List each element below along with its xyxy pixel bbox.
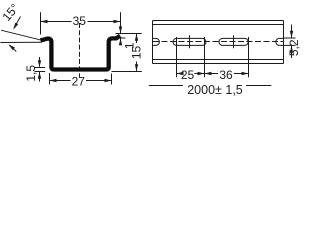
1 dim ticks / 15 dim top extension — [116, 33, 142, 35]
35 dim extension line left — [40, 12, 42, 34]
15deg leader arrows — [12, 23, 18, 31]
5,2 dim ticks — [284, 37, 296, 39]
svg-text:2000± 1,5: 2000± 1,5 — [187, 83, 243, 97]
svg-text:25: 25 — [181, 68, 195, 82]
1,5 dim ticks — [35, 67, 46, 69]
15deg leader upper — [14, 17, 21, 29]
36 dim arrows — [205, 72, 212, 75]
svg-text:15: 15 — [130, 46, 144, 60]
slot 1 — [173, 38, 206, 45]
hat profile (DIN rail cross-section) — [41, 36, 121, 70]
svg-text:35: 35 — [73, 14, 87, 28]
15deg reference line horizontal — [1, 41, 42, 43]
15 dim bottom extension — [112, 71, 142, 73]
15 dim line — [136, 34, 138, 44]
rail fold line top — [153, 24, 284, 26]
15 dim arrows — [135, 34, 138, 41]
15deg leader lower — [9, 45, 16, 51]
slot 2 — [219, 38, 248, 45]
rail fold line bottom — [153, 59, 284, 61]
2000 dim line — [149, 85, 183, 87]
rail centerline dashed — [153, 41, 283, 43]
5,2 dim arrow stems — [291, 25, 293, 38]
25 dim line — [177, 73, 181, 75]
1,5 dim arrow stems — [39, 57, 41, 67]
rail front view top edge — [153, 20, 284, 22]
rail left end — [152, 21, 154, 64]
35 dim line — [41, 21, 72, 23]
half slot at right end — [276, 38, 284, 45]
centerline of cross-section (dashed) — [79, 23, 81, 77]
27 dim arrows — [50, 79, 57, 82]
svg-text:1,5: 1,5 — [24, 65, 38, 82]
half slot at left end — [153, 38, 160, 45]
27 dim extension lines — [49, 73, 51, 85]
svg-text:27: 27 — [72, 75, 86, 89]
27 dim line — [50, 80, 71, 82]
1 dim arrows — [119, 26, 122, 33]
1,5 dim arrows — [38, 60, 41, 67]
25 dim arrows — [177, 72, 184, 75]
rail bottom edge — [153, 63, 284, 65]
rail right end — [283, 21, 285, 64]
slot 2 center tick — [233, 35, 235, 48]
svg-text:36: 36 — [219, 68, 233, 82]
1 dim arrow stems — [120, 27, 122, 34]
35 dim arrows — [41, 20, 48, 23]
35 dim extension line right — [120, 12, 122, 33]
svg-text:5,2: 5,2 — [287, 39, 300, 56]
5,2 dim arrows — [290, 31, 293, 38]
15deg inclined line — [1, 30, 42, 40]
25/36 dim extension lines — [176, 37, 178, 77]
slot 1 center tick — [189, 35, 191, 48]
36 dim line — [205, 73, 219, 75]
